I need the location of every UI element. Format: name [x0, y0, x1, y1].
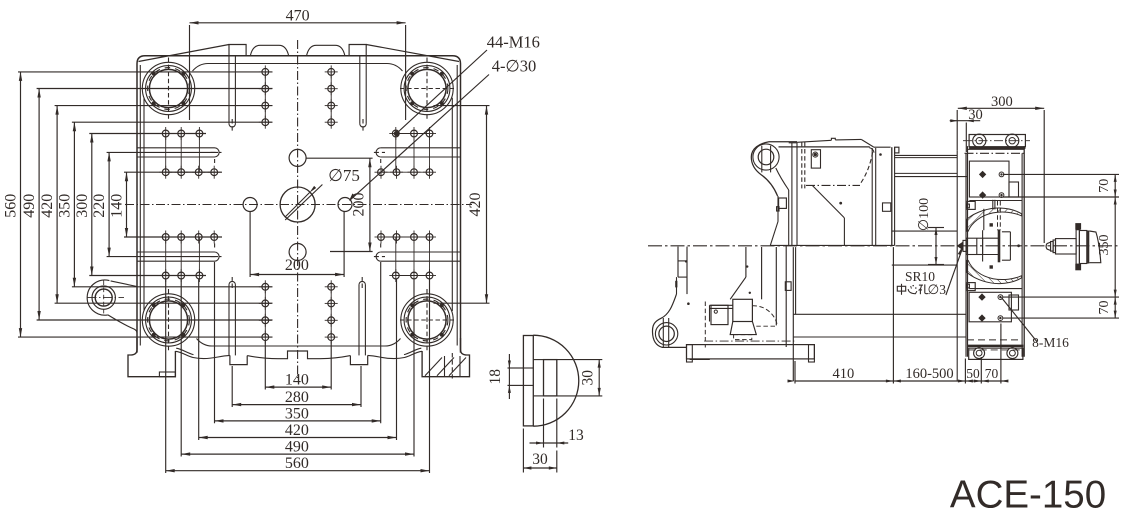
svg-text:30: 30: [580, 370, 597, 386]
svg-text:300: 300: [74, 194, 91, 218]
svg-text:300: 300: [991, 94, 1013, 110]
svg-text:560: 560: [3, 194, 20, 218]
svg-text:490: 490: [285, 439, 309, 456]
svg-text:ACE-150: ACE-150: [950, 473, 1106, 516]
svg-text:30: 30: [968, 107, 983, 123]
svg-text:50: 50: [966, 366, 980, 381]
svg-text:8-M16: 8-M16: [1032, 335, 1069, 350]
svg-text:∅100: ∅100: [917, 198, 932, 231]
svg-text:4-∅30: 4-∅30: [492, 57, 537, 76]
svg-text:∅3: ∅3: [928, 282, 947, 297]
svg-text:350: 350: [1097, 235, 1112, 256]
svg-text:160-500: 160-500: [905, 366, 953, 382]
svg-text:44-M16: 44-M16: [487, 33, 540, 52]
svg-text:200: 200: [285, 257, 309, 274]
svg-text:140: 140: [109, 194, 126, 218]
svg-text:420: 420: [285, 422, 309, 439]
svg-text:280: 280: [285, 389, 309, 406]
svg-text:18: 18: [487, 369, 504, 385]
svg-text:420: 420: [39, 194, 56, 218]
svg-text:220: 220: [91, 194, 108, 218]
svg-text:70: 70: [1097, 301, 1112, 315]
svg-text:470: 470: [286, 8, 310, 25]
svg-text:420: 420: [467, 193, 484, 217]
svg-text:410: 410: [833, 366, 855, 382]
svg-text:350: 350: [56, 194, 73, 218]
svg-text:350: 350: [285, 405, 309, 422]
svg-text:140: 140: [285, 372, 309, 389]
svg-text:∅75: ∅75: [328, 166, 360, 185]
svg-text:70: 70: [985, 366, 999, 381]
svg-text:70: 70: [1097, 179, 1112, 193]
svg-text:30: 30: [532, 451, 548, 468]
svg-text:490: 490: [21, 194, 38, 218]
svg-text:13: 13: [568, 427, 584, 444]
svg-text:560: 560: [285, 455, 309, 472]
